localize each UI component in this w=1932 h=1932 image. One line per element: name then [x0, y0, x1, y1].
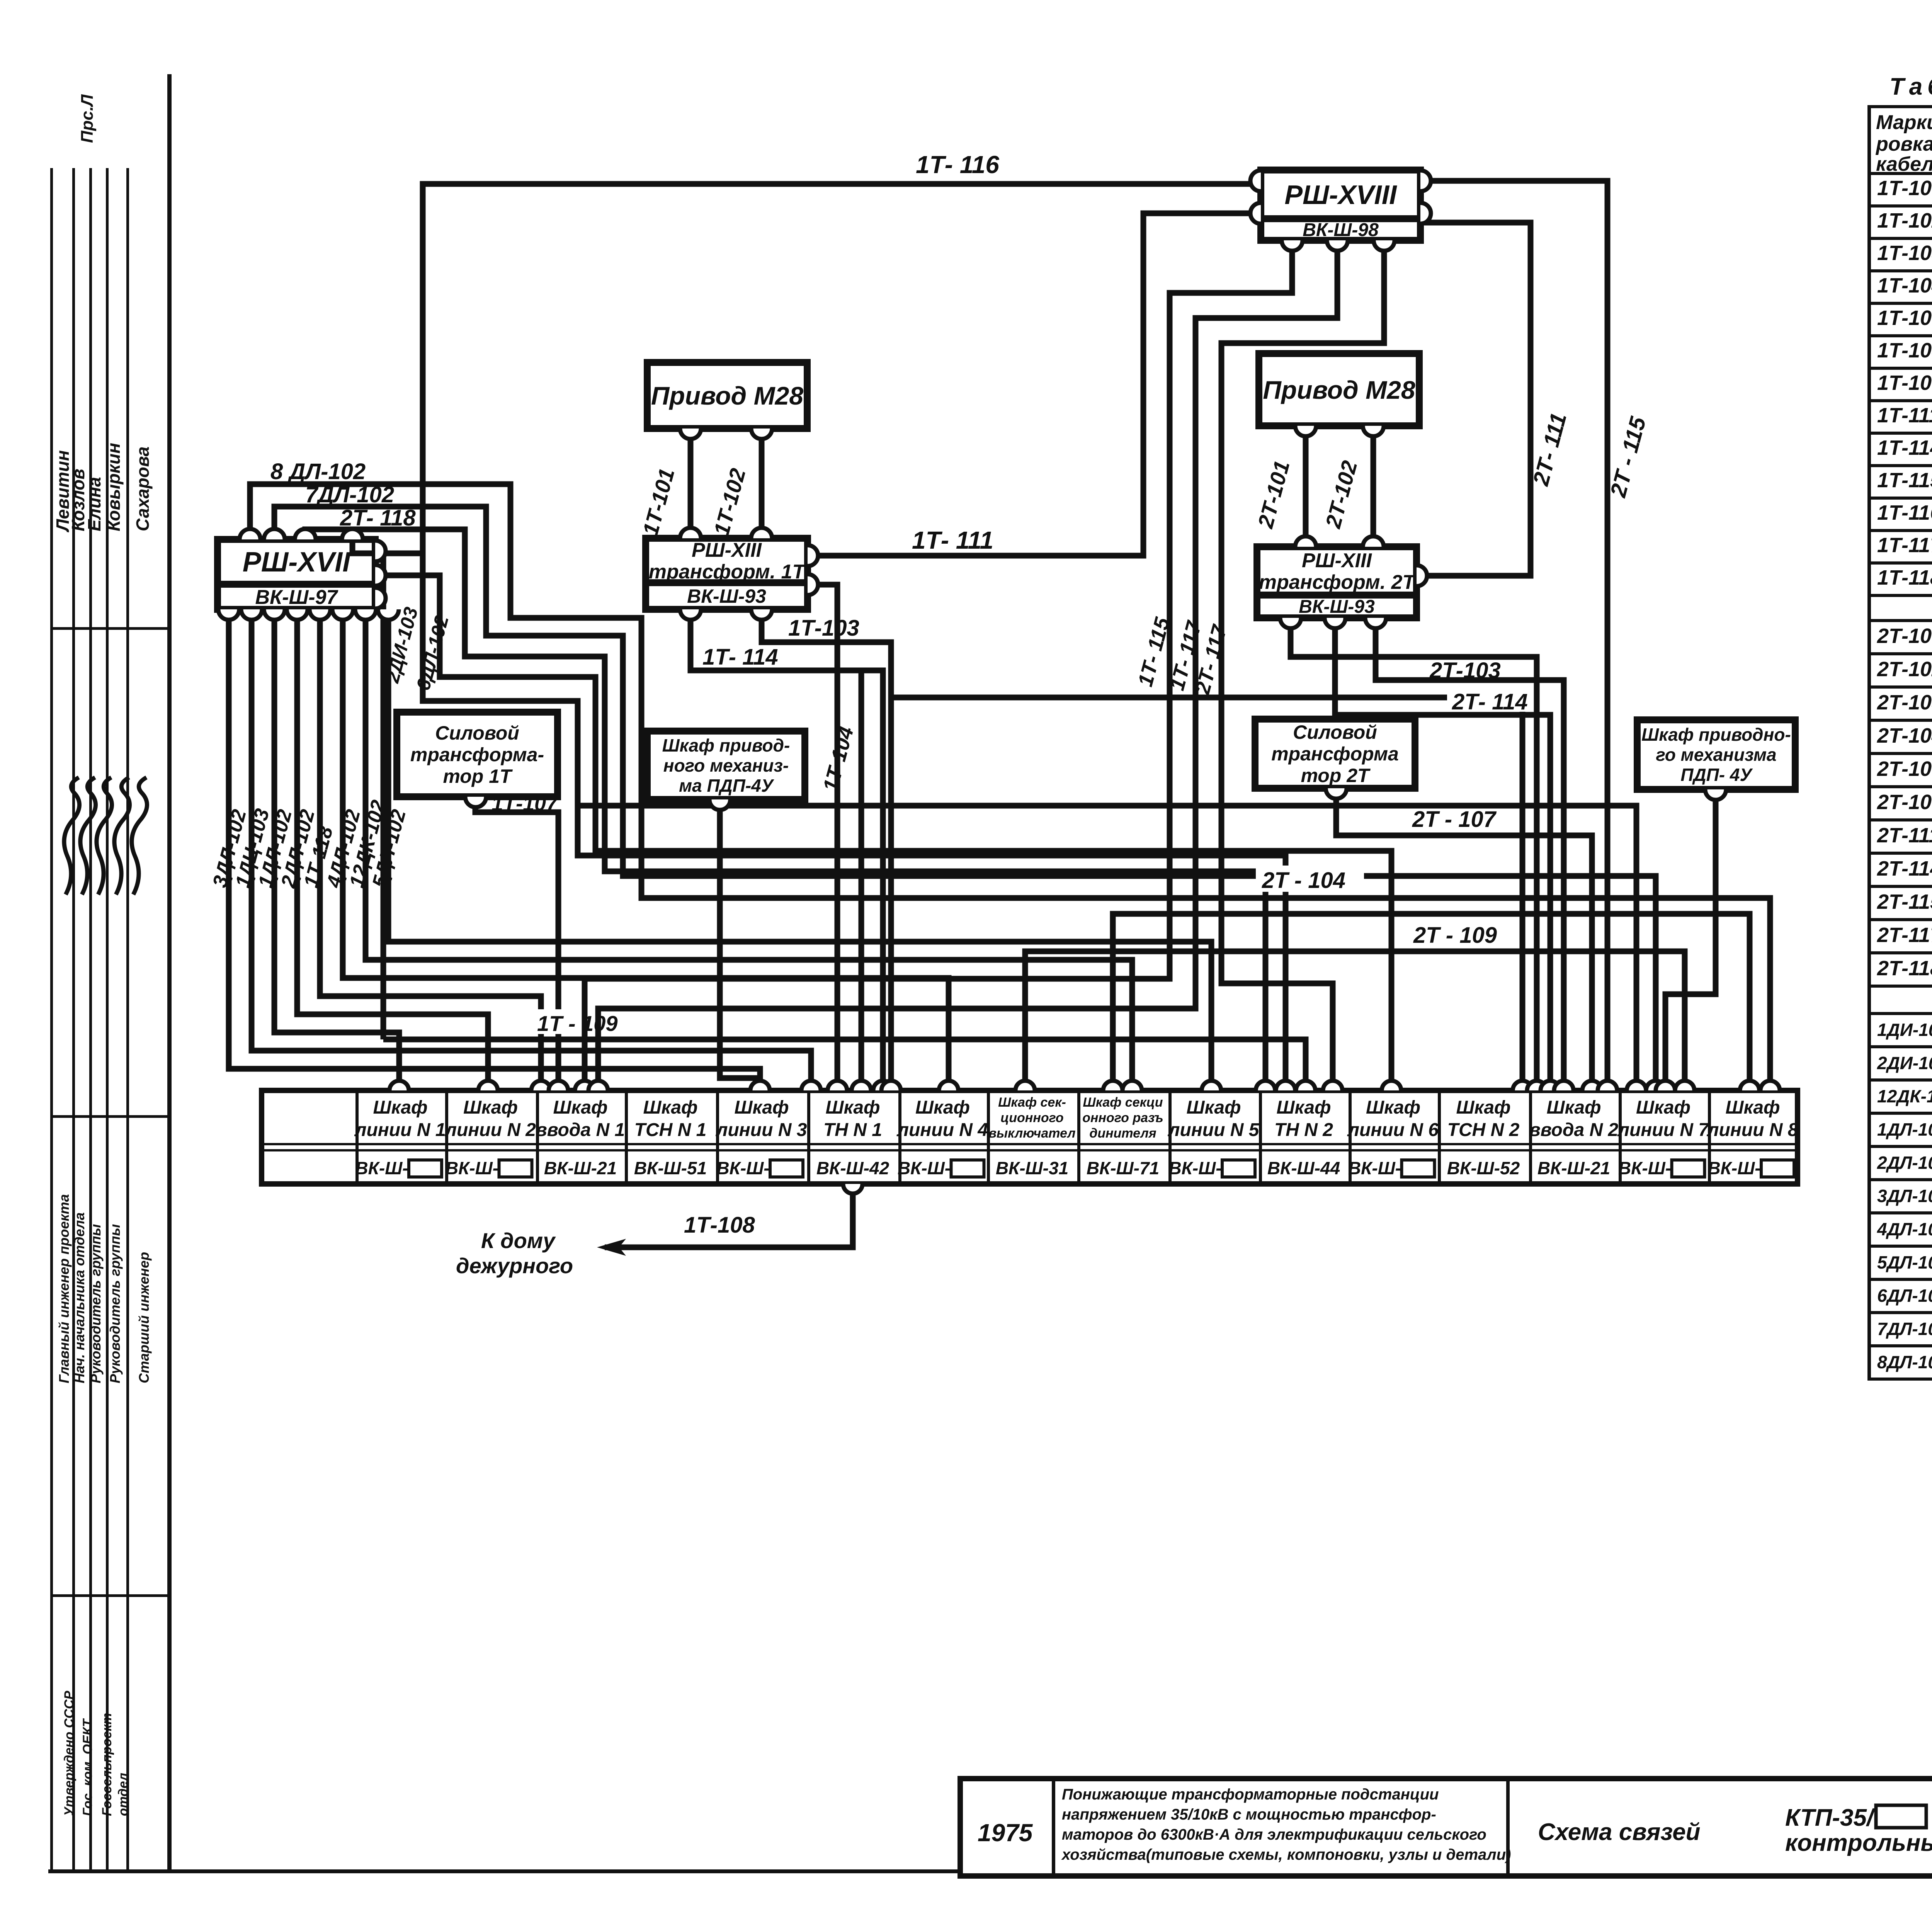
svg-text:Шкаф: Шкаф [734, 1097, 789, 1118]
wire long mid run y1805 [891, 697, 1522, 1090]
svg-text:2Т- 114: 2Т- 114 [1452, 689, 1528, 714]
block Силовой трансформатор 1Т [397, 712, 558, 797]
svg-text:кабеля: кабеля [1876, 153, 1932, 175]
svg-text:1Т-104: 1Т-104 [1877, 274, 1932, 297]
svg-text:12ДК-102: 12ДК-102 [1877, 1086, 1932, 1106]
wire 2Т-118 run [305, 529, 1265, 1090]
connector bump row bump [1513, 1081, 1532, 1090]
connector bump row bump [389, 1081, 409, 1090]
svg-text:Сахарова: Сахарова [133, 447, 153, 531]
svg-text:Шкаф: Шкаф [1725, 1097, 1780, 1118]
sheet frame bottom border [48, 1869, 1932, 1873]
connector bump РШ-XVII bottom [310, 609, 330, 620]
connector bump ТН N1 bottom bump [843, 1184, 862, 1194]
wire 1Т-118 run [320, 611, 541, 1090]
svg-text:4ДЛ-102: 4ДЛ-102 [1877, 1219, 1932, 1239]
svg-text:линии N 6: линии N 6 [1347, 1120, 1439, 1140]
wire 7ДЛ-102 run [274, 507, 1656, 1090]
connector bump row bump [1276, 1081, 1295, 1090]
svg-text:1Т- 114: 1Т- 114 [702, 645, 778, 670]
svg-text:1ДЛ-102: 1ДЛ-102 [1877, 1119, 1932, 1139]
svg-text:напряжением 35/10кВ с мощность: напряжением 35/10кВ с мощностью трансфор… [1062, 1806, 1436, 1823]
svg-text:6ДЛ-102: 6ДЛ-102 [1877, 1286, 1932, 1306]
connector bump РШ-XVII bottom [355, 609, 376, 620]
svg-text:маторов до 6300кВ·А для электр: маторов до 6300кВ·А для электрификации с… [1062, 1826, 1486, 1843]
svg-text:Утверждено СССР: Утверждено СССР [62, 1690, 77, 1816]
wire 6ДЛ-102 run [377, 575, 1391, 1090]
left strip separator y=4126 [50, 1594, 169, 1597]
wire 2Т-115 run [1423, 181, 1607, 1090]
connector bump РШ-XVII bottom [218, 609, 239, 620]
svg-text:трансформа: трансформа [1271, 743, 1399, 765]
svg-text:1Т-114: 1Т-114 [1877, 436, 1932, 459]
connector bump РШ-XVII bottom [264, 609, 285, 620]
connector bump РШ-XIII 1Т bottom [680, 609, 701, 620]
svg-text:1Т-108: 1Т-108 [1877, 339, 1932, 362]
wire 2Т-103 run [1376, 619, 1564, 1090]
connector bump РШ-XVII top [342, 529, 363, 539]
svg-text:2Т-111: 2Т-111 [1877, 824, 1932, 847]
svg-text:2Т-115: 2Т-115 [1877, 890, 1932, 913]
block Шкаф приводного механизма ПДП-4У (1Т) [647, 731, 805, 799]
connector bump row bump [1296, 1081, 1315, 1090]
svg-text:7ДЛ-102: 7ДЛ-102 [305, 482, 394, 507]
left strip column line 5 [126, 168, 129, 1869]
svg-text:Марки-: Марки- [1876, 111, 1932, 134]
connector bump РШ-XVII top [264, 529, 285, 539]
svg-text:Шкаф: Шкаф [1546, 1097, 1601, 1118]
wire 1Т-102 cable [759, 430, 765, 537]
connector bump РШ-XVII bottom [287, 609, 308, 620]
svg-text:Шкаф сек-: Шкаф сек- [998, 1095, 1066, 1110]
svg-text:Старший инженер: Старший инженер [136, 1252, 152, 1383]
svg-text:1Т-103: 1Т-103 [788, 616, 859, 641]
left strip column line 1 [50, 168, 53, 1869]
svg-text:ВК-Ш-: ВК-Ш- [446, 1158, 498, 1178]
svg-text:1Т-118: 1Т-118 [1877, 566, 1932, 589]
wire 2Т-107 run [1336, 797, 1592, 1090]
svg-text:ВК-Ш-21: ВК-Ш-21 [1537, 1158, 1610, 1178]
connector bump row bump [575, 1081, 594, 1090]
left strip separator y=1623 [50, 627, 169, 630]
connector bump row bump [549, 1081, 568, 1090]
svg-text:2Т-102: 2Т-102 [1877, 658, 1932, 681]
connector bump row bump [1598, 1081, 1617, 1090]
left strip column line 3 [89, 168, 92, 1869]
signature squiggle 2 [80, 777, 96, 895]
block РШ-XIII 1Т code band [646, 583, 808, 609]
connector bump РШ-XVIII left [1250, 203, 1261, 224]
svg-text:1Т-115: 1Т-115 [1877, 469, 1932, 492]
svg-text:1Т-108: 1Т-108 [684, 1213, 755, 1238]
svg-text:ВК-Ш-: ВК-Ш- [716, 1158, 769, 1178]
block Шкаф приводного механизма ПДП-4У (2Т) [1637, 720, 1795, 789]
connector bump row bump [1527, 1081, 1546, 1090]
connector bump row bump [1103, 1081, 1122, 1090]
svg-text:Шкаф: Шкаф [553, 1097, 607, 1118]
svg-text:ВК-Ш-31: ВК-Ш-31 [996, 1158, 1068, 1178]
svg-text:ВК-Ш-21: ВК-Ш-21 [544, 1158, 617, 1178]
connector bump row bump [1740, 1081, 1759, 1090]
svg-text:линии N 1: линии N 1 [354, 1120, 446, 1140]
svg-text:Шкаф приводно-: Шкаф приводно- [1641, 724, 1791, 745]
svg-text:ВК-Ш-: ВК-Ш- [1168, 1158, 1221, 1178]
svg-text:2Т - 107: 2Т - 107 [1412, 807, 1497, 832]
svg-text:Привод М28: Привод М28 [1263, 376, 1415, 404]
connector bump row bump [828, 1081, 847, 1090]
connector bump ПДП 1Т bottom [709, 799, 730, 810]
svg-text:Руководитель группы: Руководитель группы [107, 1224, 123, 1383]
svg-text:ВК-Ш-: ВК-Ш- [1348, 1158, 1401, 1178]
connector bump РШ-XIII 2Т right [1417, 565, 1427, 586]
wire 1Т-116 run [423, 184, 1286, 1090]
connector bump РШ-XIII 2Т bottom [1280, 618, 1301, 628]
connector bump РШ-XIII 1Т bottom [751, 609, 772, 620]
svg-text:Главный инженер проекта: Главный инженер проекта [56, 1194, 72, 1383]
connector bump row bump [801, 1081, 821, 1090]
svg-text:трансформ. 2Т: трансформ. 2Т [1259, 571, 1417, 594]
svg-text:ВК-Ш-93: ВК-Ш-93 [1299, 597, 1375, 617]
connector bump row bump [750, 1081, 770, 1090]
svg-text:Шкаф: Шкаф [463, 1097, 518, 1118]
connector bump row bump [1656, 1081, 1675, 1090]
wire ПДП2 run [1665, 791, 1716, 1090]
svg-text:2Т - 104: 2Т - 104 [1262, 868, 1345, 893]
svg-text:2Т - 109: 2Т - 109 [1413, 923, 1497, 948]
connector bump row bump [1382, 1081, 1401, 1090]
svg-text:7ДЛ-102: 7ДЛ-102 [1877, 1319, 1932, 1339]
wire 12ДК-102 run [366, 611, 1132, 1090]
svg-text:1Т-101: 1Т-101 [1877, 177, 1932, 200]
connector bump row bump [478, 1081, 498, 1090]
svg-text:КТП-35/: КТП-35/ [1785, 1804, 1876, 1831]
wire 2ДЛ-102 run [297, 611, 488, 1090]
svg-text:дежурного: дежурного [456, 1253, 573, 1278]
bottom title block [960, 1779, 1932, 1876]
connector bump row bump [1015, 1081, 1035, 1090]
wire h11 run [806, 585, 837, 1090]
wire 1Т-114 run [690, 611, 861, 1090]
connector bump row bump [1256, 1081, 1275, 1090]
svg-text:Шкаф: Шкаф [1186, 1097, 1241, 1118]
svg-text:ПДП- 4У: ПДП- 4У [1680, 765, 1753, 785]
svg-text:Шкаф: Шкаф [1456, 1097, 1510, 1118]
wire 1ДЦ-103 run [252, 611, 811, 1090]
block РШ-XVII code band [218, 584, 375, 609]
wire 2Т-114 run [1335, 619, 1550, 1090]
svg-text:1Т-107: 1Т-107 [492, 792, 559, 815]
svg-text:2ДЛ-102: 2ДЛ-102 [1877, 1153, 1932, 1173]
svg-text:Силовой: Силовой [1293, 721, 1377, 743]
wire 8ДЛ-102 run [250, 484, 1770, 1090]
connector bump РШ-XVIII left [1250, 170, 1261, 191]
connector bump РШ-XVII right [375, 565, 386, 586]
wire 1Т-109 long [383, 1039, 1306, 1090]
svg-text:ВК-Ш-: ВК-Ш- [1708, 1158, 1760, 1178]
block РШ-XIII трансформ. 2Т [1257, 547, 1417, 595]
svg-text:ВК-Ш-93: ВК-Ш-93 [687, 585, 766, 607]
svg-text:отдел: отдел [116, 1773, 131, 1816]
connector bump РШ-XVII bottom [378, 609, 399, 620]
svg-text:Шкаф: Шкаф [915, 1097, 970, 1118]
block РШ-XIII 2Т code band [1257, 595, 1417, 618]
svg-text:Шкаф: Шкаф [825, 1097, 880, 1118]
svg-text:2Т-107: 2Т-107 [1877, 757, 1932, 781]
svg-text:Шкаф: Шкаф [643, 1097, 697, 1118]
svg-text:ввода N 1: ввода N 1 [536, 1120, 625, 1140]
svg-text:2Т- 118: 2Т- 118 [340, 505, 416, 531]
svg-text:ВК-Ш-52: ВК-Ш-52 [1447, 1158, 1520, 1178]
svg-text:ционного: ционного [1000, 1111, 1063, 1125]
svg-text:2Т-103: 2Т-103 [1877, 691, 1932, 714]
svg-text:линии N 4: линии N 4 [896, 1120, 988, 1140]
connector bump row bump [852, 1081, 871, 1090]
connector bump row bump [881, 1081, 901, 1090]
svg-text:го механизма: го механизма [1656, 745, 1776, 765]
svg-text:1975: 1975 [978, 1819, 1033, 1847]
svg-text:1Т- 116: 1Т- 116 [916, 151, 999, 179]
svg-text:2Т-101: 2Т-101 [1877, 624, 1932, 648]
connector bump РШ-XIII 1Т right [808, 574, 818, 595]
svg-text:Шкаф: Шкаф [1366, 1097, 1420, 1118]
svg-text:онного разъ: онного разъ [1082, 1111, 1163, 1125]
wire 1Т-103 run [762, 611, 891, 1090]
connector bump РШ-XVII top [295, 529, 316, 539]
left strip separator y=2886 [50, 1115, 169, 1118]
svg-text:выключател: выключател [988, 1126, 1075, 1141]
svg-text:РШ-XVIII: РШ-XVIII [1284, 180, 1397, 210]
svg-text:ма ПДП-4У: ма ПДП-4У [679, 776, 775, 796]
signature squiggle 1 [64, 777, 80, 895]
svg-text:ВК-Ш-71: ВК-Ш-71 [1087, 1158, 1159, 1178]
left strip heavy vertical [167, 74, 172, 1869]
connector bump Привод 1Т bottom [680, 429, 701, 439]
svg-text:Шкаф секци: Шкаф секци [1083, 1095, 1163, 1110]
wire 5ДЛ-102 run [388, 611, 1211, 1090]
svg-text:2Т-117: 2Т-117 [1877, 923, 1932, 947]
svg-text:2ДИ-103: 2ДИ-103 [1877, 1053, 1932, 1073]
svg-text:ТСН N 2: ТСН N 2 [1447, 1120, 1520, 1140]
connector bump Силовой 1Т bottom [465, 797, 486, 807]
connector bump row bump [1323, 1081, 1342, 1090]
connector bump РШ-XIII 2Т bottom [1325, 618, 1345, 628]
svg-text:ВК-Ш-44: ВК-Ш-44 [1267, 1158, 1340, 1178]
svg-text:линии N 2: линии N 2 [444, 1120, 536, 1140]
svg-text:8 ДЛ-102: 8 ДЛ-102 [270, 459, 366, 484]
svg-text:линии N 3: линии N 3 [716, 1120, 807, 1140]
connector bump row bump [873, 1081, 893, 1090]
svg-text:тор 1Т: тор 1Т [443, 765, 513, 787]
wire 1ДЛ-102 run [274, 611, 399, 1090]
connector bump РШ-XVII bottom [332, 609, 353, 620]
connector bump РШ-XVIII right [1420, 170, 1431, 191]
wire 3ДЛ-102 run [229, 611, 760, 1090]
signature squiggle 5 [132, 777, 147, 895]
connector bump РШ-XIII 2Т top [1363, 536, 1384, 547]
block РШ-XVIII code band [1261, 219, 1420, 240]
svg-text:контрольными кабелями: контрольными кабелями [1785, 1830, 1932, 1856]
arrowhead 1Т-108 [597, 1239, 626, 1256]
svg-text:Привод М28: Привод М28 [651, 381, 803, 410]
svg-text:ВК-Ш-: ВК-Ш- [898, 1158, 951, 1178]
svg-text:Нач. начальника отдела: Нач. начальника отдела [71, 1213, 87, 1383]
wire 2ДИ-103 run [377, 551, 383, 1039]
block РШ-XIII трансформ. 1Т [646, 538, 808, 583]
left strip column line 4 [106, 168, 109, 1869]
connector bump row bump [1554, 1081, 1573, 1090]
connector bump row bump [1541, 1081, 1560, 1090]
connector bump РШ-XVIII bottom [1327, 240, 1348, 251]
svg-text:тор 2Т: тор 2Т [1301, 765, 1371, 786]
svg-text:динителя: динителя [1089, 1126, 1156, 1141]
block РШ-XVIII [1261, 170, 1420, 219]
wire секц разъед riser [1113, 914, 1750, 1090]
signature squiggle 4 [114, 777, 130, 895]
svg-text:2Т-104: 2Т-104 [1877, 724, 1932, 747]
left strip column line 2 [72, 168, 75, 1869]
svg-text:ВК-Ш-51: ВК-Ш-51 [634, 1158, 707, 1178]
svg-text:ВК-Ш-97: ВК-Ш-97 [255, 586, 338, 609]
svg-text:Елина: Елина [84, 477, 104, 531]
bottom cabinet row [262, 1090, 1798, 1184]
svg-text:1Т-109: 1Т-109 [1877, 371, 1932, 395]
wire 4ДЛ-102 run [343, 611, 949, 1090]
connector bump row bump [531, 1081, 551, 1090]
connector bump РШ-XVII right [375, 541, 386, 561]
connector bump РШ-XIII 2Т top [1295, 536, 1316, 547]
connector bump row bump [1202, 1081, 1221, 1090]
svg-text:ТН N 1: ТН N 1 [823, 1120, 882, 1140]
wire 2Т-109 long [1025, 951, 1685, 1090]
svg-text:2Т-103: 2Т-103 [1429, 658, 1501, 683]
svg-text:Госсельпроект: Госсельпроект [100, 1713, 114, 1816]
block Силовой трансформатор 2Т [1255, 719, 1415, 788]
connector bump Силовой 2Т bottom [1326, 788, 1347, 799]
wire ПДП1 run [720, 801, 760, 1090]
svg-text:ВК-Ш-: ВК-Ш- [1618, 1158, 1671, 1178]
svg-text:ввода N 2: ввода N 2 [1529, 1120, 1619, 1140]
connector bump РШ-XVII right [375, 588, 386, 609]
wire 2Т-102 cable [1371, 427, 1376, 545]
wire 2Т-117 run [1221, 242, 1384, 1090]
svg-text:1ДИ-103: 1ДИ-103 [1877, 1020, 1932, 1040]
svg-text:1Т-111: 1Т-111 [1877, 404, 1932, 427]
block РШ-XVII [218, 539, 375, 584]
connector bump Привод 1Т bottom [751, 429, 772, 439]
connector bump row bump [1760, 1081, 1780, 1090]
connector bump РШ-XIII 1Т right [808, 545, 818, 566]
connector bump РШ-XVIII bottom [1374, 240, 1395, 251]
svg-text:ного механиз-: ного механиз- [663, 755, 789, 776]
svg-text:3ДЛ-102: 3ДЛ-102 [1877, 1186, 1932, 1206]
svg-text:Понижающие трансформаторные: Понижающие трансформаторные подстанции [1062, 1786, 1439, 1803]
svg-text:1Т-107: 1Т-107 [1877, 306, 1932, 330]
connector bump row bump [588, 1081, 608, 1090]
svg-text:Ковыркин: Ковыркин [104, 443, 124, 531]
wire 1Т-101 cable [688, 430, 694, 537]
connector bump row bump [939, 1081, 958, 1090]
connector bump РШ-XVII bottom [241, 609, 262, 620]
svg-text:1Т-103: 1Т-103 [1877, 241, 1932, 265]
connector bump РШ-XIII 2Т bottom [1365, 618, 1386, 628]
wire 2Т-111 run [1419, 223, 1531, 576]
svg-text:ВК-Ш-98: ВК-Ш-98 [1303, 220, 1379, 240]
svg-text:Шкаф: Шкаф [373, 1097, 427, 1118]
svg-text:2Т-118: 2Т-118 [1877, 957, 1932, 980]
svg-text:2Т-109: 2Т-109 [1877, 791, 1932, 814]
connector bump Привод 2Т bottom [1295, 426, 1316, 436]
signature squiggle 3 [97, 777, 112, 895]
svg-text:ровка: ровка [1875, 133, 1932, 155]
connector bump РШ-XIII 1Т top [751, 528, 772, 538]
wire top bump4 stub [352, 538, 423, 553]
connector bump row bump [1627, 1081, 1646, 1090]
svg-text:РШ-XVII: РШ-XVII [243, 547, 351, 578]
connector bump Привод 2Т bottom [1363, 426, 1384, 436]
connector bump РШ-XVIII bottom [1282, 240, 1303, 251]
connector bump row bump [1646, 1081, 1665, 1090]
table: cable marking table [1867, 105, 1932, 108]
svg-text:линии N 8: линии N 8 [1707, 1120, 1798, 1140]
svg-text:ВК-Ш-42: ВК-Ш-42 [816, 1158, 889, 1178]
wire 1Т-115 run [585, 242, 1292, 1090]
wire 1Т-107 run [475, 798, 558, 1090]
svg-text:трансформа-: трансформа- [410, 744, 544, 765]
svg-text:Прс.Л: Прс.Л [78, 94, 97, 143]
wire x2285 drop [861, 670, 883, 1090]
svg-text:Гос. ком. ОЕКТ: Гос. ком. ОЕКТ [80, 1718, 95, 1816]
svg-text:ТСН N 1: ТСН N 1 [634, 1120, 707, 1140]
svg-text:Схема связей: Схема связей [1538, 1819, 1701, 1845]
svg-text:ВК-Ш-: ВК-Ш- [355, 1158, 408, 1178]
wire 1Т-111 run [811, 213, 1258, 556]
wire 2Т h3 run [1291, 619, 1537, 1090]
svg-text:8ДЛ-102: 8ДЛ-102 [1877, 1352, 1932, 1372]
svg-text:1Т-102: 1Т-102 [1877, 209, 1932, 232]
connector bump row bump [1675, 1081, 1694, 1090]
connector bump РШ-XVII top [240, 529, 260, 539]
svg-text:1Т- 111: 1Т- 111 [912, 526, 993, 554]
connector bump РШ-XIII 1Т top [680, 528, 701, 538]
svg-text:1Т-116: 1Т-116 [1877, 501, 1932, 524]
svg-text:1Т - 109: 1Т - 109 [537, 1011, 618, 1036]
connector bump row bump [1582, 1081, 1602, 1090]
svg-text:2Т-114: 2Т-114 [1877, 857, 1932, 880]
wire 1Т-108 run [605, 1185, 853, 1247]
svg-text:линии N 5: линии N 5 [1168, 1120, 1260, 1140]
connector bump ПДП 2Т bottom [1705, 789, 1726, 800]
block Привод М28 (1Т) [647, 362, 807, 429]
svg-text:К дому: К дому [481, 1228, 556, 1253]
svg-text:Силовой: Силовой [435, 722, 519, 744]
svg-text:линии N 7: линии N 7 [1617, 1120, 1709, 1140]
svg-text:РШ-ХIII: РШ-ХIII [1302, 549, 1372, 572]
svg-text:РШ-ХIII: РШ-ХIII [692, 539, 762, 561]
wire 1Т-117 run [598, 242, 1337, 1090]
wire 2Т-101 cable [1303, 427, 1309, 545]
svg-text:Шкаф привод-: Шкаф привод- [662, 735, 790, 755]
connector bump РШ-XVIII right [1420, 203, 1431, 224]
svg-text:хозяйства(типовые схемы, компо: хозяйства(типовые схемы, компоновки, узл… [1061, 1846, 1511, 1863]
svg-text:1Т-117: 1Т-117 [1877, 534, 1932, 557]
connector bump row bump [1122, 1081, 1142, 1090]
svg-text:ТН N 2: ТН N 2 [1274, 1120, 1333, 1140]
svg-text:Шкаф: Шкаф [1276, 1097, 1331, 1118]
svg-text:Руководитель группы: Руководитель группы [88, 1224, 104, 1383]
svg-text:5ДЛ-102: 5ДЛ-102 [1877, 1252, 1932, 1272]
svg-text:Шкаф: Шкаф [1636, 1097, 1690, 1118]
wire mid long run y2085 [578, 806, 1636, 1090]
